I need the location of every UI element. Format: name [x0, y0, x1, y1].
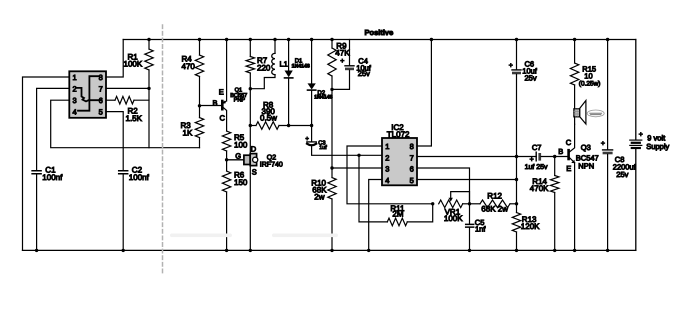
- junction R10-ground: [330, 249, 333, 252]
- svg-text:5: 5: [410, 176, 414, 185]
- wire positive supply top bus: [123, 39, 636, 41]
- diode D1 symbol: [285, 71, 293, 78]
- IC U1 internal link pin2-pin6: [77, 88, 101, 102]
- wire pin2 branch to R11: [359, 155, 387, 222]
- svg-text:2: 2: [385, 153, 389, 162]
- wire pin2 down to C1: [37, 88, 70, 170]
- transistor Q3 emitter arrow: [571, 160, 575, 164]
- svg-text:100K: 100K: [124, 60, 143, 69]
- svg-text:G: G: [235, 151, 241, 160]
- capacitor C8 symbol: [603, 149, 613, 151]
- svg-text:NPN: NPN: [578, 161, 594, 170]
- wire bus to R7: [249, 40, 251, 57]
- resistor R1: [145, 49, 153, 70]
- wire IC2 pin1 feedback: [347, 146, 433, 204]
- wire R10 to ground: [331, 199, 333, 250]
- junction Q3-ground: [573, 249, 576, 252]
- junction R9-C4: [330, 88, 333, 91]
- junction L1 top bus: [273, 38, 276, 41]
- svg-text:IRF740: IRF740: [260, 161, 283, 168]
- junction C8-ground: [606, 249, 609, 252]
- junction D2 top bus: [310, 38, 313, 41]
- transistor Q1 base bar: [221, 101, 224, 109]
- junction base node: [198, 104, 201, 107]
- svg-text:1: 1: [73, 73, 77, 82]
- resistor R13: [512, 213, 520, 233]
- capacitor C6 symbol: [512, 69, 521, 71]
- wire R12 right: [510, 203, 517, 205]
- junction C6-pin7: [515, 155, 518, 158]
- wire bus to D1: [288, 40, 290, 71]
- svg-text:+: +: [340, 58, 344, 65]
- svg-text:2M: 2M: [392, 210, 403, 219]
- wire pin1 to left rail: [23, 77, 70, 250]
- wire battery to ground bus: [635, 149, 637, 251]
- svg-text:C: C: [220, 114, 226, 123]
- wire R3 bottom to line: [199, 138, 201, 148]
- svg-text:4: 4: [73, 108, 77, 117]
- junction C2-ground: [122, 249, 125, 252]
- svg-text:2: 2: [73, 85, 77, 94]
- wire node to R12: [470, 203, 481, 205]
- svg-text:5: 5: [99, 108, 103, 117]
- svg-text:E: E: [566, 164, 571, 173]
- junction pin8 bus: [430, 38, 433, 41]
- svg-text:Supply: Supply: [646, 142, 669, 151]
- svg-text:3: 3: [73, 96, 77, 105]
- junction R6-ground: [225, 249, 228, 252]
- wire R8 left stub: [250, 125, 256, 127]
- junction pin7-R1: [147, 87, 150, 90]
- capacitor C2 symbol: [119, 171, 128, 174]
- svg-text:150: 150: [234, 178, 248, 187]
- junction gate node: [225, 158, 228, 161]
- resistor R12: [480, 200, 510, 208]
- resistor R7: [246, 57, 254, 74]
- svg-text:3: 3: [385, 165, 389, 174]
- svg-text:7: 7: [99, 85, 103, 94]
- wire C4 to R9: [332, 70, 350, 89]
- dashed separator line: [162, 25, 164, 274]
- resistor R3: [195, 118, 203, 138]
- resistor R8: [256, 122, 279, 130]
- svg-text:25v: 25v: [358, 69, 370, 78]
- svg-text:1uf: 1uf: [319, 145, 327, 151]
- wire R4 to base node: [199, 77, 201, 118]
- svg-text:25v: 25v: [525, 74, 537, 83]
- op-amp IC2 body: [382, 138, 417, 185]
- wire speaker to Q3 collector: [574, 117, 576, 124]
- junction pin3 node: [330, 166, 333, 169]
- wire bus to battery: [635, 40, 637, 140]
- faint watermark smudge left: [170, 234, 232, 238]
- junction B node: [553, 155, 556, 158]
- capacitor C7 symbol: [535, 152, 537, 161]
- junction C5-ground: [468, 249, 471, 252]
- svg-text:Positive: Positive: [365, 28, 394, 37]
- wire bus to D2: [311, 40, 313, 84]
- resistor R14: [551, 176, 559, 193]
- wire B node to R14: [554, 157, 556, 176]
- svg-text:100nf: 100nf: [129, 173, 150, 182]
- wire bus to L1: [274, 40, 276, 54]
- wire R6 to ground bus: [226, 192, 228, 250]
- wire C7 to Q3 base: [541, 156, 568, 158]
- faint watermark smudge right: [272, 234, 338, 238]
- junction D1-R8: [287, 124, 290, 127]
- wire R2 to vertical: [134, 99, 149, 101]
- transistor Q3 collector: [569, 124, 575, 152]
- wire R7 bottom to drain: [249, 73, 251, 153]
- svg-text:C: C: [566, 138, 572, 147]
- wire IC2 pin5 line: [417, 179, 517, 181]
- wire R5 to R6: [226, 151, 228, 171]
- svg-text:7: 7: [410, 153, 414, 162]
- junction VR1-C5 node: [468, 202, 471, 205]
- svg-text:1uf 25v: 1uf 25v: [525, 163, 548, 171]
- svg-text:10: 10: [584, 71, 592, 80]
- wire pin5 down to C2: [106, 112, 123, 171]
- svg-text:47K: 47K: [335, 49, 350, 58]
- wire base node to Q1 base: [200, 105, 222, 107]
- svg-text:B: B: [558, 147, 563, 156]
- battery BT1 symbol: [630, 139, 642, 141]
- wire R15 to speaker: [574, 85, 576, 109]
- wire IC2 pin3 line: [332, 167, 382, 169]
- svg-text:Q3: Q3: [581, 143, 591, 152]
- junction pin4 ground: [367, 249, 370, 252]
- svg-text:+: +: [639, 131, 643, 138]
- svg-text:1.5K: 1.5K: [126, 114, 143, 123]
- wire C6 to pin7 line: [516, 74, 518, 156]
- svg-text:1nf: 1nf: [475, 225, 486, 234]
- wire C3 to IC2 pin2 line: [312, 146, 382, 155]
- wire pin8 up to top bus: [106, 40, 123, 78]
- junction L1 return: [249, 87, 252, 90]
- wire D2 to C3: [311, 91, 313, 142]
- svg-text:8: 8: [99, 73, 103, 82]
- junction C6 top bus: [515, 38, 518, 41]
- junction pin2 node: [357, 154, 360, 157]
- junction R12 node: [515, 202, 518, 205]
- wire bus to R4: [199, 40, 201, 56]
- wire C8 to ground: [607, 154, 609, 250]
- capacitor C3 symbol: [307, 141, 317, 143]
- junction R13-ground: [515, 249, 518, 252]
- svg-text:C7: C7: [532, 143, 542, 152]
- junction C8 top bus: [606, 38, 609, 41]
- junction R7 top bus: [249, 38, 252, 41]
- potentiometer VR1 wiper: [451, 192, 470, 204]
- wire L1 bottom return to drain column: [250, 75, 275, 89]
- svg-text:68K 2w: 68K 2w: [481, 205, 508, 214]
- svg-text:220: 220: [257, 64, 271, 73]
- resistor R11: [387, 218, 407, 226]
- wire IC2 pin7 line: [417, 156, 536, 158]
- svg-text:1K: 1K: [183, 129, 193, 138]
- svg-text:120K: 120K: [521, 222, 540, 231]
- svg-text:100K: 100K: [444, 214, 463, 223]
- wire IC2 pin8 to top bus: [417, 40, 431, 147]
- junction R1 top bus: [147, 38, 150, 41]
- junction R9 top bus: [330, 38, 333, 41]
- capacitor C4 symbol: [345, 65, 354, 67]
- wire bus to R9: [331, 40, 333, 49]
- svg-text:470K: 470K: [530, 184, 549, 193]
- wire bus to C6: [516, 40, 518, 70]
- wire C1 bottom to ground bus: [36, 174, 38, 250]
- transistor Q2 gate plate: [244, 155, 250, 164]
- wire C2 bottom to ground bus: [122, 174, 124, 250]
- potentiometer VR1 track: [439, 200, 463, 208]
- svg-text:100nf: 100nf: [42, 173, 63, 182]
- wire D1 to R8 line: [288, 79, 290, 126]
- wire bus to C8: [607, 40, 609, 150]
- IC U1 body (8-pin device): [69, 71, 106, 118]
- wire ground bottom bus: [23, 249, 636, 251]
- wire IC2 pin4 to ground: [369, 180, 382, 251]
- speaker LS1 cone: [580, 101, 586, 125]
- inductor L1 coil: [272, 53, 275, 74]
- wire R8 right stub: [279, 125, 312, 127]
- speaker LS1 oval label: [587, 110, 604, 117]
- svg-text:1N4148: 1N4148: [314, 95, 332, 101]
- wire C5 to ground: [469, 227, 471, 250]
- capacitor C1 symbol: [32, 171, 41, 174]
- transistor Q3 base bar: [567, 150, 570, 159]
- svg-text:0.5w: 0.5w: [260, 113, 277, 122]
- wire Q3 emitter to ground: [574, 163, 576, 251]
- svg-text:6: 6: [410, 165, 414, 174]
- junction pin5 node: [515, 178, 518, 181]
- svg-text:+: +: [509, 62, 513, 69]
- wire R1 bottom down to y148 line: [148, 70, 150, 148]
- junction Q2-ground: [249, 249, 252, 252]
- wire VR1 right: [463, 203, 470, 205]
- svg-text:1: 1: [385, 142, 389, 151]
- wire Q2 source to ground: [249, 166, 251, 251]
- svg-text:470: 470: [182, 62, 196, 71]
- junction D2-R8 line: [310, 124, 313, 127]
- resistor R2: [115, 96, 134, 104]
- svg-text:8: 8: [410, 142, 414, 151]
- speaker LS1 magnet: [574, 109, 580, 117]
- wire bus to R1: [148, 40, 150, 50]
- junction feedback node: [431, 202, 434, 205]
- wire gate: [227, 159, 244, 161]
- svg-text:+: +: [530, 156, 534, 163]
- svg-text:R12: R12: [487, 191, 502, 200]
- junction Q1 emitter top bus: [225, 38, 228, 41]
- IC U1 internal link pin8-pin4: [78, 76, 99, 111]
- junction R14-ground: [553, 249, 556, 252]
- svg-text:S: S: [252, 167, 257, 176]
- wire R11 to feedback node: [407, 204, 432, 222]
- junction D1 top bus: [287, 38, 290, 41]
- wire bus to R15: [574, 40, 576, 64]
- junction R8 left: [249, 124, 252, 127]
- wire bus to C4: [349, 40, 351, 66]
- svg-text:(0.25w): (0.25w): [579, 80, 601, 87]
- transistor Q2 body: [250, 154, 256, 166]
- resistor R10: [328, 178, 336, 200]
- junction R4 top bus: [198, 38, 201, 41]
- resistor R5: [222, 131, 230, 151]
- svg-text:4: 4: [385, 176, 389, 185]
- svg-text:B: B: [213, 99, 218, 108]
- diode D2 symbol: [308, 83, 316, 89]
- wire pin7 node down to R13: [516, 157, 518, 213]
- svg-text:TL072: TL072: [387, 130, 410, 139]
- wire pin3 left and down: [51, 100, 200, 148]
- wire R13 to ground: [516, 232, 518, 250]
- junction C1-ground: [35, 249, 38, 252]
- capacitor C5 symbol: [466, 224, 474, 227]
- resistor R15: [570, 63, 578, 85]
- svg-text:25v: 25v: [616, 170, 628, 179]
- svg-text:2w: 2w: [314, 193, 324, 202]
- junction R15 top bus: [573, 38, 576, 41]
- transistor Q2 circle: [253, 157, 258, 162]
- svg-text:D: D: [251, 145, 257, 154]
- svg-text:100: 100: [234, 141, 248, 150]
- wire R14 to ground: [554, 193, 556, 251]
- transistor Q1 emitter arrow: [222, 101, 226, 104]
- svg-text:L1: L1: [280, 60, 288, 69]
- wire R9 to R10: [331, 76, 333, 178]
- transistor Q3 emitter: [569, 157, 575, 163]
- wire pin6 stub to R2: [106, 99, 115, 101]
- resistor R6: [222, 171, 230, 192]
- transistor Q1 emitter: [222, 40, 226, 104]
- transistor Q1 collector: [222, 107, 226, 131]
- wire pin7 to R1/R2 node: [106, 87, 149, 89]
- svg-text:E: E: [219, 87, 224, 96]
- resistor R4: [195, 55, 203, 77]
- svg-text:+: +: [601, 141, 605, 148]
- svg-text:1N4148: 1N4148: [292, 64, 310, 70]
- wire IC2 pin6 line: [417, 168, 470, 204]
- resistor R9: [328, 48, 336, 76]
- wire node to C5: [469, 204, 471, 225]
- svg-text:PNP: PNP: [234, 97, 246, 103]
